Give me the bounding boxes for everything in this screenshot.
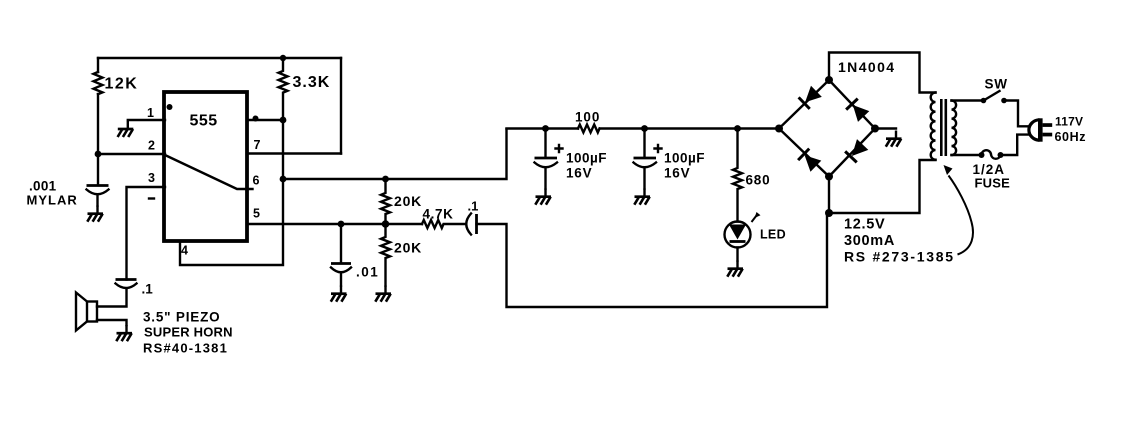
- node bridge bottom: [825, 173, 833, 181]
- wire top rail left section: [98, 57, 341, 59]
- svg-text:12K: 12K: [105, 76, 139, 93]
- wire bridge bottom to junction: [828, 177, 830, 214]
- speaker 3.5in piezo horn: [87, 302, 97, 322]
- wire pin 8 row: [247, 119, 283, 121]
- capacitor 100uF 16V (1): [544, 129, 546, 158]
- svg-text:5: 5: [253, 207, 260, 221]
- wire pin 3 down to coupling cap: [127, 187, 166, 280]
- transformer T1 primary winding: [952, 101, 957, 156]
- node Vcc column / +V row junction: [280, 176, 287, 183]
- node 20K junction: [382, 220, 390, 228]
- transformer T1 secondary winding: [931, 93, 936, 160]
- svg-text:.001: .001: [29, 179, 57, 194]
- svg-text:20K: 20K: [394, 240, 422, 256]
- svg-text:SW: SW: [985, 77, 1008, 92]
- wire 12K bottom to pin2 node: [97, 94, 99, 154]
- wire vertical Vcc column x283 down to pin4 loop: [180, 120, 283, 265]
- pin 8 dot marker: [253, 116, 259, 122]
- svg-text:12.5V: 12.5V: [844, 217, 885, 233]
- svg-text:MYLAR: MYLAR: [27, 193, 78, 208]
- resistor 12K: [94, 72, 103, 94]
- svg-text:RS #273-1385: RS #273-1385: [844, 249, 955, 265]
- node filter cap 2: [641, 125, 648, 132]
- LED indicator: [725, 222, 751, 248]
- wire power rail left segment: [507, 127, 579, 129]
- diode D1 top-left: [799, 86, 822, 109]
- capacitor .1 (series coupling): [466, 214, 471, 235]
- node bridge top: [825, 76, 833, 84]
- svg-text:100: 100: [575, 110, 600, 125]
- node bridge left: [775, 125, 783, 133]
- wire primary top to switch: [952, 99, 982, 101]
- svg-text:SUPER HORN: SUPER HORN: [144, 325, 233, 340]
- svg-text:117V: 117V: [1055, 114, 1083, 128]
- capacitor .1 (speaker coupling): [116, 278, 137, 281]
- wire switch to plug: [1004, 101, 1030, 127]
- transformer core: [941, 99, 946, 156]
- resistor 4.7K: [422, 220, 466, 228]
- svg-text:20K: 20K: [394, 193, 422, 209]
- arrow from label to transformer: [949, 176, 973, 255]
- wire fuse to plug: [1001, 135, 1030, 155]
- svg-text:16V: 16V: [566, 166, 592, 181]
- diode D4 bottom-right: [845, 139, 868, 162]
- svg-text:680: 680: [746, 173, 771, 188]
- resistor 3.3K: [279, 58, 288, 120]
- wire internal diagonal pin2-pin6: [166, 156, 253, 190]
- capacitor 100uF 16V (2): [643, 129, 645, 158]
- stray dash under pin 3: [149, 197, 154, 199]
- svg-text:16V: 16V: [664, 166, 690, 181]
- wire pin 7 row: [247, 152, 341, 154]
- svg-text:LED: LED: [760, 228, 786, 242]
- node dot inside box: [167, 104, 173, 110]
- svg-text:60Hz: 60Hz: [1055, 130, 1087, 144]
- svg-text:2: 2: [148, 139, 155, 153]
- ground for speaker: [116, 325, 132, 341]
- svg-text:RS#40-1381: RS#40-1381: [143, 341, 228, 356]
- wire +V row y179: [283, 129, 507, 179]
- resistor 680: [733, 129, 742, 222]
- wire primary bottom to fuse: [952, 154, 981, 156]
- node top-rail / 3.3K junction: [280, 55, 286, 61]
- svg-text:300mA: 300mA: [844, 233, 895, 249]
- fuse 1/2A: [979, 152, 985, 158]
- svg-text:3.3K: 3.3K: [293, 74, 331, 91]
- ground for bridge: [886, 131, 902, 147]
- ground for cap 1: [535, 189, 551, 205]
- svg-text:100µF: 100µF: [664, 151, 705, 166]
- node 3.3K / pin8 junction: [280, 117, 287, 124]
- resistor 20K lower: [381, 224, 390, 286]
- node .01 junction: [338, 221, 345, 228]
- ground for .001 cap: [87, 206, 103, 222]
- svg-text:3: 3: [148, 171, 155, 185]
- node filter cap 1: [542, 125, 549, 132]
- resistor 100: [578, 125, 599, 133]
- node +V / 20K top junction: [382, 176, 389, 183]
- capacitor .001 MYLAR: [87, 184, 109, 187]
- wire left vertical to 12K: [97, 58, 99, 72]
- ground for cap 2: [634, 189, 650, 205]
- svg-text:.01: .01: [356, 265, 379, 280]
- wire node to cap .001: [97, 154, 99, 185]
- wire junction to transformer secondary bottom: [829, 160, 936, 213]
- svg-text:4.7K: 4.7K: [423, 207, 454, 222]
- IC 555 box U1: [164, 92, 247, 241]
- node 680 branch: [734, 125, 741, 132]
- svg-text:FUSE: FUSE: [975, 176, 1011, 191]
- wire pin 2 row: [98, 153, 165, 155]
- svg-text:4: 4: [181, 244, 188, 258]
- diode D3 bottom-left: [798, 149, 821, 172]
- ground for .01: [331, 286, 347, 302]
- ground for pin 1: [118, 121, 134, 137]
- AC plug 117V: [1029, 120, 1040, 140]
- wire bridge top to transformer: [829, 53, 936, 93]
- wire pin 1 to ground: [128, 119, 165, 121]
- svg-text:1N4004: 1N4004: [838, 59, 895, 75]
- node pin2 / cap junction: [95, 151, 102, 158]
- bridge rectifier edges: [779, 80, 875, 177]
- svg-text:555: 555: [190, 113, 218, 130]
- svg-text:.1: .1: [142, 282, 154, 297]
- node bottom junction: [825, 209, 833, 217]
- ground for LED: [727, 261, 743, 277]
- capacitor .01: [340, 224, 342, 263]
- wire cap to bottom rail: [477, 213, 828, 307]
- switch SW: [981, 98, 987, 104]
- ground for 20K lower: [375, 286, 391, 302]
- wire bridge right to ground: [875, 127, 896, 129]
- node bridge right: [871, 125, 879, 133]
- svg-text:6: 6: [253, 174, 260, 188]
- diode D2 top-right: [846, 99, 869, 122]
- resistor 20K upper: [381, 179, 390, 224]
- svg-text:1: 1: [147, 106, 154, 120]
- wire pin 5 row: [247, 223, 422, 225]
- svg-text:3.5" PIEZO: 3.5" PIEZO: [143, 310, 220, 325]
- wire top-rail right vertical to pin 7: [340, 58, 342, 154]
- wire power rail right segment: [600, 127, 779, 129]
- svg-text:100µF: 100µF: [566, 151, 607, 166]
- svg-text:.1: .1: [468, 199, 479, 214]
- svg-text:7: 7: [254, 138, 261, 152]
